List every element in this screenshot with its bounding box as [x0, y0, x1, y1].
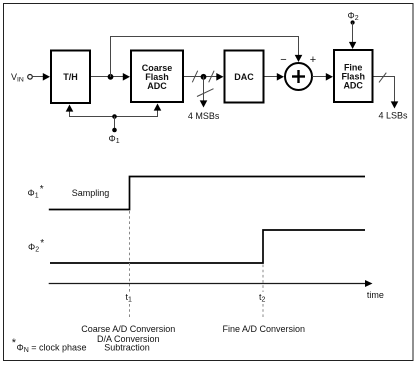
node clock Phi2 [348, 11, 359, 25]
bus slash [192, 71, 197, 83]
bus slash [197, 89, 214, 97]
node junction dot MSB tap [201, 74, 207, 80]
wire DAC to summer [265, 73, 285, 81]
dashed line t2 [262, 265, 264, 320]
block Fine Flash ADC [334, 50, 373, 102]
svg-text:time: time [367, 290, 384, 300]
svg-text:T/H: T/H [63, 72, 78, 82]
wire Phi2 into Fine Flash ADC [349, 23, 356, 50]
node clock Phi1 [109, 114, 120, 145]
wire Fine ADC output LSB [374, 77, 399, 109]
svg-text:−: − [280, 54, 286, 66]
wire MSB branch down [200, 77, 208, 108]
label Coarse conversion steps [81, 324, 175, 353]
block T/H [51, 51, 90, 104]
time axis [49, 280, 373, 287]
svg-text:DAC: DAC [234, 72, 254, 82]
waveform Phi2 [50, 230, 365, 263]
dashed line t1 [129, 211, 131, 320]
svg-text:Sampling: Sampling [72, 188, 110, 198]
wire Coarse ADC to DAC [184, 73, 224, 81]
svg-text:4 MSBs: 4 MSBs [188, 111, 220, 121]
wire feedforward to summer [111, 37, 303, 78]
wire Phi1 distribution [66, 104, 162, 117]
svg-text:Fine A/D Conversion: Fine A/D Conversion [223, 324, 306, 334]
svg-text:+: + [310, 54, 316, 66]
svg-text:Coarse A/D Conversion: Coarse A/D Conversion [81, 324, 175, 334]
block Coarse Flash ADC [131, 51, 183, 103]
svg-text:ADC: ADC [147, 81, 167, 91]
summing junction [285, 63, 312, 90]
bus slash [209, 71, 214, 83]
waveform Phi1 [49, 177, 365, 210]
node VIN [11, 72, 32, 84]
block DAC [225, 51, 264, 103]
bus slash [379, 73, 386, 83]
svg-text:4 LSBs: 4 LSBs [378, 110, 408, 120]
node junction dot after T/H [108, 74, 114, 80]
svg-text:ADC: ADC [343, 80, 363, 90]
wire T/H to Coarse Flash ADC [91, 73, 130, 81]
wire VIN to T/H [32, 73, 50, 81]
svg-text:Subtraction: Subtraction [104, 343, 150, 353]
wire summer to Fine Flash ADC [312, 73, 333, 81]
